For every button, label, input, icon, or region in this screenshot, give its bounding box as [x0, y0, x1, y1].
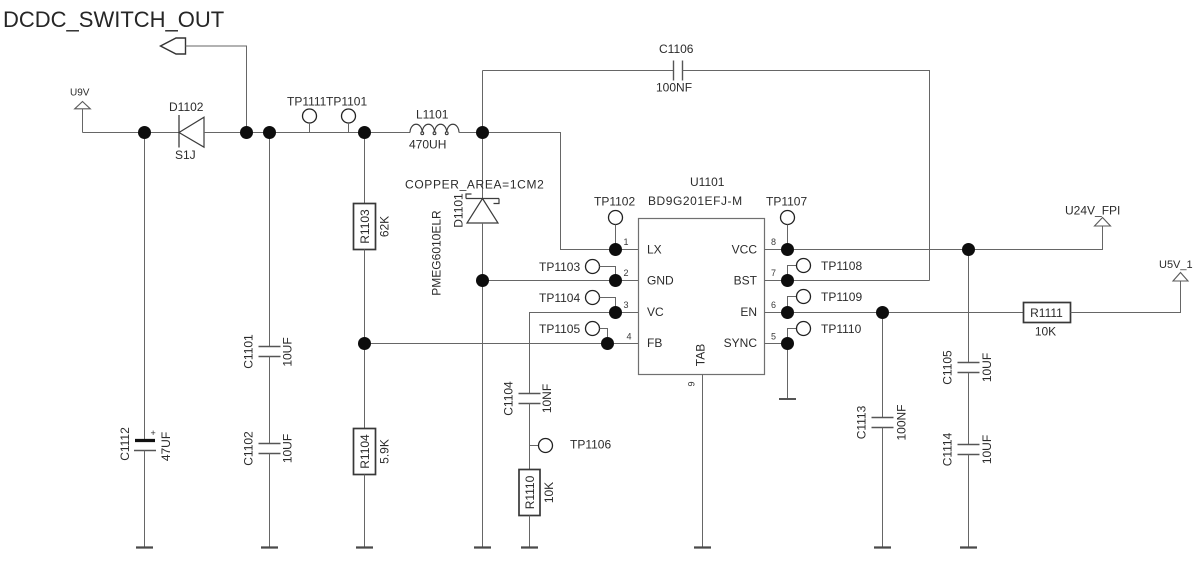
wire C1113 to ground	[882, 428, 884, 548]
power symbol U5V_1	[1159, 259, 1193, 281]
svg-text:C1104: C1104	[501, 381, 515, 416]
wire D1101 to ground	[482, 281, 484, 548]
svg-text:FB: FB	[647, 336, 662, 350]
svg-text:COPPER_AREA=1CM2: COPPER_AREA=1CM2	[405, 178, 544, 192]
wire C1114 to ground	[968, 455, 970, 548]
node SYNC pin	[781, 337, 794, 350]
node D1101 GND junction	[476, 274, 489, 287]
svg-text:U24V_FPI: U24V_FPI	[1065, 204, 1120, 218]
node on rail at net flag branch	[240, 126, 253, 139]
pin 7	[771, 268, 776, 278]
wire TAB to ground	[702, 375, 704, 548]
svg-text:C1113: C1113	[854, 405, 868, 439]
svg-text:TP1108: TP1108	[821, 259, 862, 273]
wire bootstrap top rail right	[683, 71, 930, 281]
svg-text:100NF: 100NF	[656, 81, 692, 95]
net flag arrow DCDC_SWITCH_OUT	[161, 38, 186, 54]
capacitor C1101	[241, 334, 294, 369]
svg-text:U1101: U1101	[690, 175, 725, 189]
resistor R1104	[354, 429, 392, 475]
svg-text:TP1101: TP1101	[326, 95, 367, 109]
svg-text:TP1102: TP1102	[594, 195, 635, 209]
capacitor C1105	[940, 350, 994, 385]
svg-text:C1101: C1101	[241, 334, 255, 369]
svg-text:U5V_1: U5V_1	[1159, 259, 1193, 271]
ground at D1101	[474, 546, 491, 548]
svg-text:LX: LX	[647, 243, 662, 257]
svg-text:10UF: 10UF	[280, 434, 294, 463]
wire bootstrap top rail left	[483, 70, 674, 72]
pin 2	[623, 268, 628, 278]
test point TP1103	[539, 260, 616, 281]
svg-text:TP1109: TP1109	[821, 290, 862, 304]
svg-text:S1J: S1J	[175, 148, 196, 162]
svg-text:GND: GND	[647, 274, 674, 288]
svg-text:C1106: C1106	[659, 42, 694, 56]
node at SW junction	[476, 126, 489, 139]
svg-text:PMEG6010ELR: PMEG6010ELR	[429, 210, 443, 296]
wire C1101 to C1102	[269, 357, 271, 444]
net label DCDC_SWITCH_OUT	[3, 7, 224, 32]
svg-text:1: 1	[623, 237, 628, 247]
test point TP1102	[594, 195, 635, 250]
wire SW node down to D1101	[482, 133, 484, 199]
svg-text:EN: EN	[740, 305, 757, 319]
svg-text:9: 9	[687, 381, 697, 386]
pin 4	[626, 332, 631, 342]
svg-text:470UH: 470UH	[409, 138, 446, 152]
node GND pin	[609, 274, 622, 287]
diode D1101 PMEG6010ELR	[429, 193, 499, 296]
resistor R1110	[519, 470, 556, 516]
svg-text:47UF: 47UF	[159, 432, 173, 461]
wire VC row	[530, 313, 639, 394]
test point TP1107	[766, 195, 807, 250]
svg-text:5: 5	[771, 332, 776, 342]
svg-text:TP1111: TP1111	[287, 95, 327, 109]
ground at C1102	[261, 546, 278, 548]
inductor L1101	[409, 108, 459, 152]
wire C1113 branch	[882, 313, 884, 418]
test point TP1108	[788, 259, 863, 281]
node VC pin	[609, 306, 622, 319]
node BST pin	[781, 274, 794, 287]
svg-text:TP1110: TP1110	[821, 322, 862, 336]
wire EN row	[765, 312, 1024, 314]
pin 1	[623, 237, 628, 247]
wire SYNC to stub ground	[787, 344, 789, 400]
node VCC output branch	[962, 243, 975, 256]
test point TP1110	[788, 322, 862, 344]
ground at C1114	[960, 546, 977, 548]
wire FB node to R1104	[364, 344, 366, 429]
wire C1102 to ground	[269, 454, 271, 548]
power symbol U9V	[70, 88, 90, 133]
resistor R1103	[354, 204, 392, 250]
ground at C1113	[874, 546, 891, 548]
wire D1101 to GND row	[482, 223, 484, 281]
capacitor C1113	[854, 404, 908, 440]
svg-text:8: 8	[771, 237, 776, 247]
svg-text:10K: 10K	[1035, 325, 1056, 339]
svg-text:TAB: TAB	[694, 344, 708, 366]
capacitor C1106	[656, 42, 694, 95]
wire from net flag to rail	[186, 46, 247, 133]
svg-text:VCC: VCC	[732, 243, 758, 257]
svg-text:BST: BST	[734, 274, 758, 288]
power symbol U24V_FPI	[1065, 204, 1120, 227]
svg-text:10UF: 10UF	[980, 435, 994, 464]
svg-text:100NF: 100NF	[894, 404, 908, 440]
svg-text:10K: 10K	[542, 482, 556, 503]
wire C1104 to R1110	[529, 404, 531, 470]
node FB pin	[601, 337, 614, 350]
svg-text:10UF: 10UF	[280, 337, 294, 366]
svg-text:6: 6	[771, 300, 776, 310]
node FB junction	[358, 337, 371, 350]
svg-text:4: 4	[626, 332, 631, 342]
svg-text:C1105: C1105	[940, 350, 954, 385]
wire FB row	[365, 343, 639, 345]
svg-text:C1102: C1102	[241, 431, 255, 466]
wire R1110 to ground	[529, 516, 531, 548]
test point TP1104	[539, 291, 616, 313]
svg-text:R1111: R1111	[1030, 306, 1063, 320]
wire R1104 to ground	[364, 475, 366, 548]
node on rail at R1103 branch	[358, 126, 371, 139]
ground at TAB	[694, 546, 711, 548]
svg-text:SYNC: SYNC	[724, 336, 758, 350]
wire rail L1101 to LX corner	[459, 132, 561, 134]
wire C1112 branch	[144, 133, 146, 440]
svg-text:L1101: L1101	[416, 108, 449, 122]
ground at R1110	[521, 546, 538, 548]
diode D1102	[169, 100, 204, 162]
IC U1101 BD9G201EFJ-M	[639, 175, 765, 375]
ground at C1112	[136, 546, 153, 548]
svg-text:BD9G201EFJ-M: BD9G201EFJ-M	[648, 194, 743, 208]
svg-text:C1114: C1114	[940, 432, 954, 466]
capacitor C1112 polarized	[118, 427, 173, 461]
svg-text:TP1107: TP1107	[766, 195, 807, 209]
wire LX elbow	[483, 133, 639, 250]
svg-text:TP1104: TP1104	[539, 291, 580, 305]
node VCC pin	[781, 243, 794, 256]
wire R1111 to U5V_1	[1071, 281, 1181, 313]
svg-text:R1103: R1103	[358, 209, 372, 244]
svg-text:2: 2	[623, 268, 628, 278]
node on rail at C1101 branch	[263, 126, 276, 139]
svg-text:R1110: R1110	[523, 475, 537, 509]
wire C1112 to ground	[144, 451, 146, 548]
wire BST row	[765, 280, 930, 282]
svg-text:TP1103: TP1103	[539, 260, 580, 274]
svg-text:TP1105: TP1105	[539, 322, 580, 336]
node EN branch C1113	[876, 306, 889, 319]
svg-text:D1101: D1101	[451, 193, 465, 228]
svg-text:10UF: 10UF	[980, 353, 994, 382]
test point TP1105	[539, 322, 608, 344]
svg-text:D1102: D1102	[169, 100, 204, 114]
svg-text:62K: 62K	[377, 216, 391, 237]
capacitor C1114	[940, 432, 994, 466]
pin 5	[771, 332, 776, 342]
node EN pin	[781, 306, 794, 319]
svg-text:10NF: 10NF	[540, 384, 554, 413]
svg-text:U9V: U9V	[70, 88, 90, 99]
wire GND row	[483, 280, 639, 282]
svg-text:R1104: R1104	[358, 434, 372, 469]
wire VCC row	[765, 226, 1103, 250]
ground stub at SYNC	[779, 398, 796, 400]
svg-text:5.9K: 5.9K	[377, 439, 391, 464]
test point TP1111	[287, 95, 327, 133]
test point TP1101	[326, 95, 367, 133]
ground at R1104	[356, 546, 373, 548]
node on rail at C1112 branch	[138, 126, 151, 139]
wire C1101 branch	[269, 133, 271, 347]
pin 8	[771, 237, 776, 247]
wire R1103 top	[364, 133, 366, 204]
svg-text:3: 3	[623, 300, 628, 310]
svg-text:DCDC_SWITCH_OUT: DCDC_SWITCH_OUT	[3, 7, 224, 32]
resistor R1111	[1024, 303, 1071, 339]
capacitor C1102	[241, 431, 294, 466]
svg-text:TP1106: TP1106	[570, 438, 611, 452]
wire rail D1102 to L1101	[204, 132, 410, 134]
wire SYNC row	[765, 343, 788, 345]
test point TP1106	[530, 438, 612, 453]
wire main rail left	[83, 132, 180, 134]
pin 6	[771, 300, 776, 310]
wire SW node up to bootstrap rail	[482, 71, 484, 133]
svg-text:C1112: C1112	[118, 427, 132, 461]
capacitor C1104	[501, 381, 554, 416]
svg-text:7: 7	[771, 268, 776, 278]
wire C1105 branch	[968, 250, 970, 363]
test point TP1109	[788, 290, 863, 313]
pin 9	[687, 381, 697, 386]
svg-text:+: +	[151, 428, 156, 438]
wire C1105 to C1114	[968, 373, 970, 445]
svg-text:VC: VC	[647, 305, 664, 319]
wire R1103 to FB node	[364, 250, 366, 344]
node LX pin	[609, 243, 622, 256]
label COPPER_AREA=1CM2	[405, 178, 544, 192]
pin 3	[623, 300, 628, 310]
